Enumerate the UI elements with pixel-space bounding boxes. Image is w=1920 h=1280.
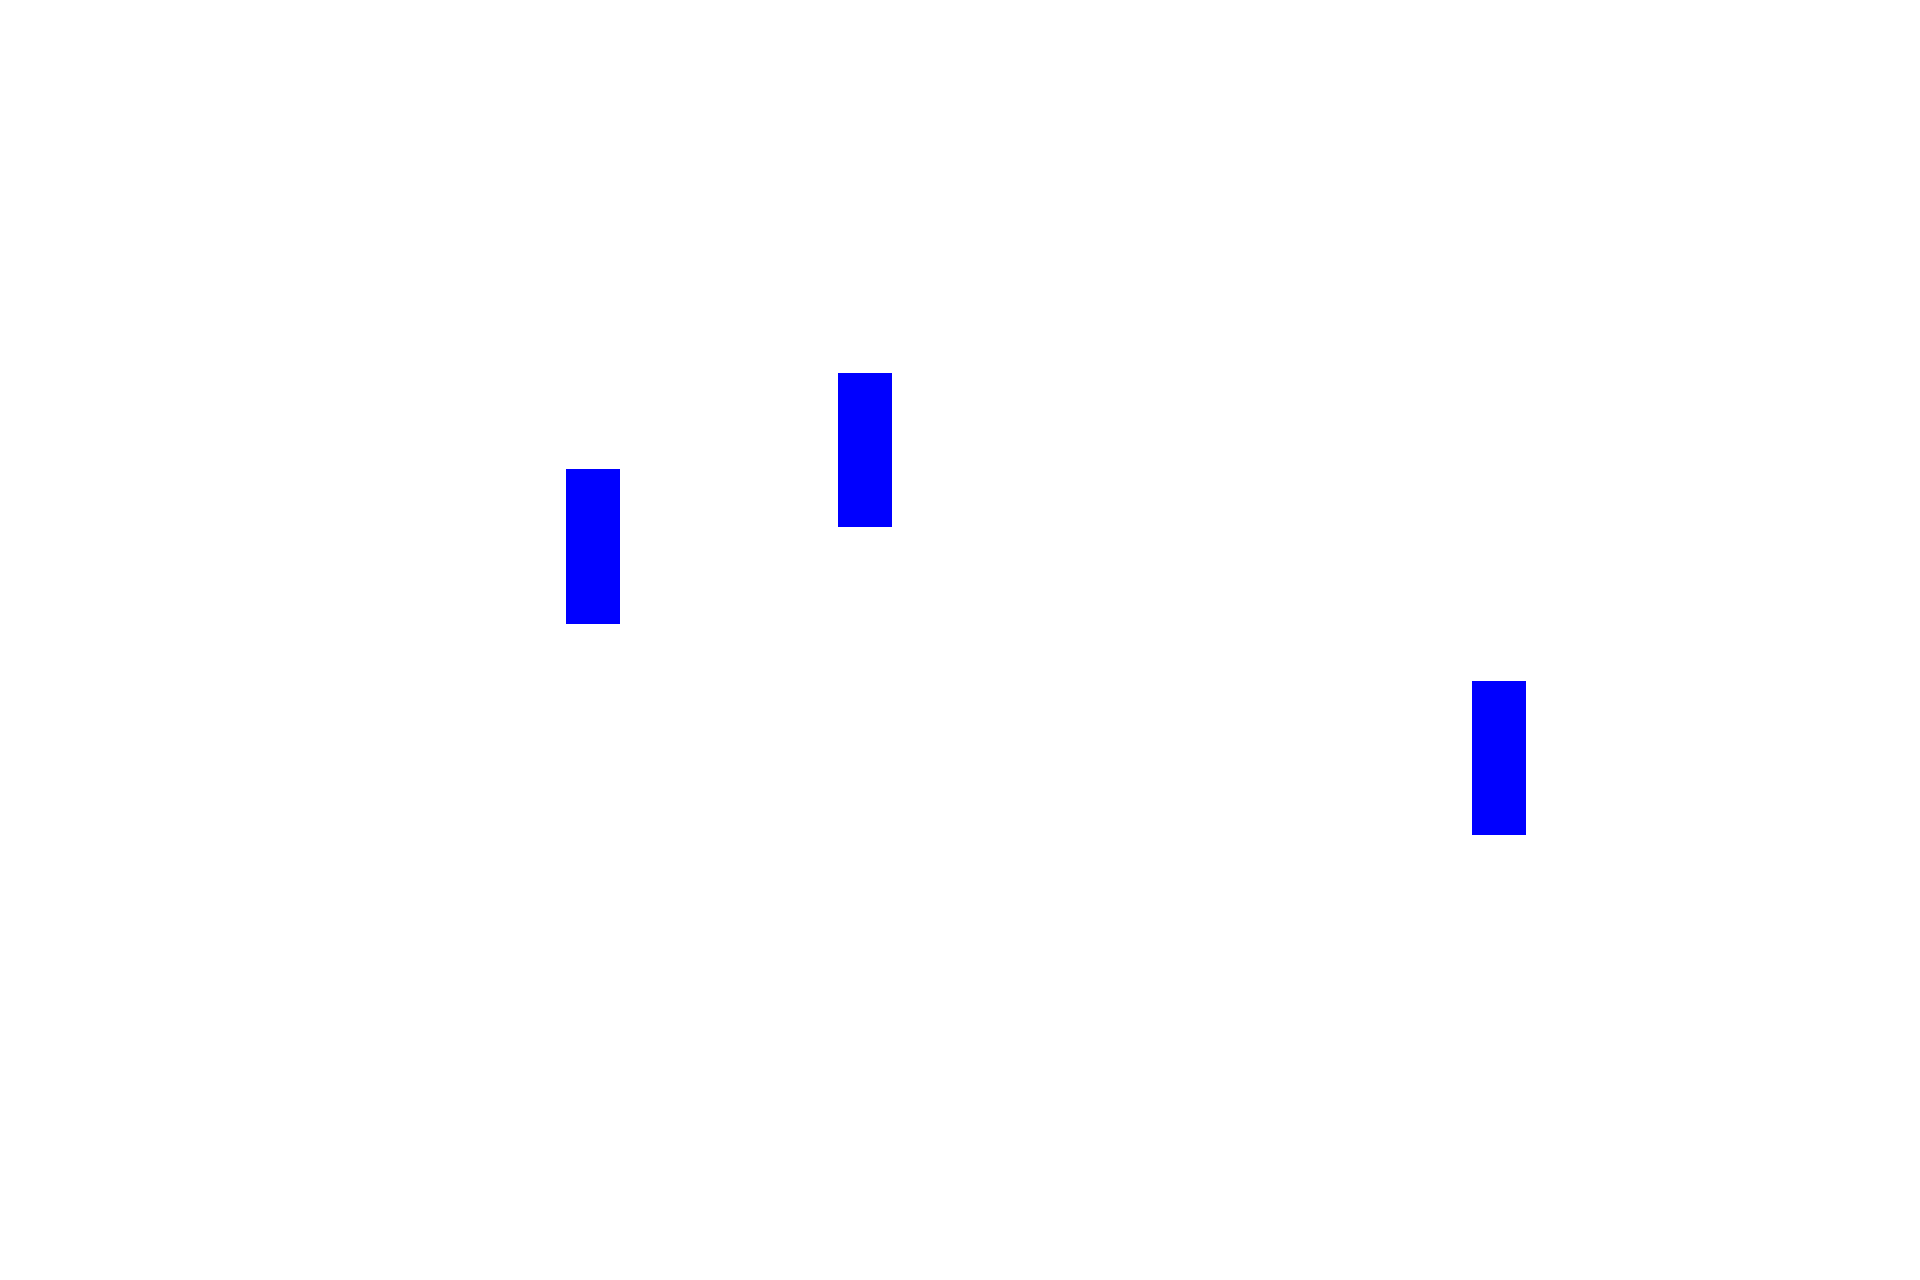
blue bar 1 (left) — [566, 469, 620, 624]
blue bar 2 (middle, highest) — [838, 373, 892, 527]
blue bar 3 (right, lowest) — [1472, 681, 1526, 835]
